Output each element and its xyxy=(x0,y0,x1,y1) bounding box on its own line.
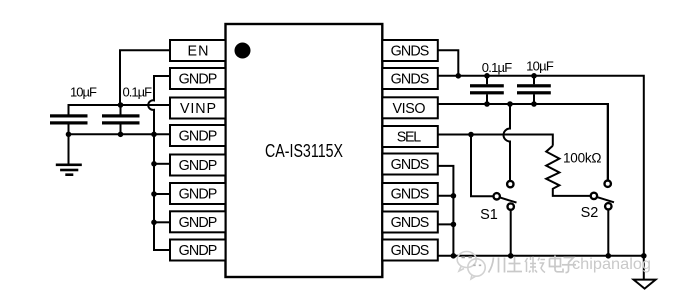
switch S2 xyxy=(591,181,614,256)
node bus dot GNDP6 xyxy=(151,191,157,197)
node bottom rail dot ground xyxy=(641,253,647,259)
wire VISO rail xyxy=(437,104,608,180)
wire ground rail left (net GNDP) xyxy=(69,133,171,135)
svg-text:GNDP: GNDP xyxy=(179,187,218,203)
ground triangle symbol right xyxy=(634,256,656,289)
node bottom rail dot S1 xyxy=(508,253,514,259)
node VISO dot C3 xyxy=(484,101,490,107)
wire bottom rail right xyxy=(437,255,644,257)
svg-text:0.1µF: 0.1µF xyxy=(482,60,513,75)
wire VINP rail xyxy=(69,105,171,115)
pin box VISO xyxy=(382,97,438,118)
ground earth symbol left xyxy=(56,134,82,176)
pin box GNDP4 xyxy=(170,125,226,146)
wire S2 upper branch from VISO xyxy=(607,104,609,180)
node bus dot GNDS6 xyxy=(451,193,457,199)
pin box GNDP6 xyxy=(170,183,226,204)
node VISO dot C4 xyxy=(531,101,537,107)
watermark char zi xyxy=(562,258,576,273)
watermark char dian xyxy=(550,256,564,272)
node junction gnd rail C1 xyxy=(66,132,72,138)
node junction GNDS1 xyxy=(456,73,462,79)
pin box GNDP2 xyxy=(170,68,226,89)
pin box VINP xyxy=(170,98,226,119)
capacitor C 10uF left xyxy=(50,105,121,134)
node top rail dot C4 xyxy=(531,73,537,79)
svg-text:VISO: VISO xyxy=(393,101,426,117)
svg-text:GNDS: GNDS xyxy=(391,157,430,173)
node junction gnd rail C2 xyxy=(118,132,124,138)
pin box GNDS5 xyxy=(382,154,438,175)
svg-text:GNDP: GNDP xyxy=(179,129,218,145)
node junction gnd rail bus xyxy=(151,132,157,138)
svg-text:S1: S1 xyxy=(480,207,498,223)
svg-text:GNDS: GNDS xyxy=(391,187,430,203)
wire EN to VINP rail (net VINP) xyxy=(120,50,170,105)
watermark char wei xyxy=(525,257,545,273)
pin box EN xyxy=(170,40,226,61)
node SEL dot S1 xyxy=(468,132,474,138)
wire GNDP7 stub xyxy=(154,221,170,223)
wire GNDP6 stub xyxy=(154,193,170,195)
switch S1 xyxy=(494,181,517,256)
node top rail dot C3 xyxy=(484,73,490,79)
pin box GNDS8 xyxy=(382,240,438,261)
wire GNDP5 stub xyxy=(154,163,170,165)
pin box GNDS2 xyxy=(382,68,438,89)
node bus dot GNDS7 xyxy=(451,222,457,228)
svg-text:GNDP: GNDP xyxy=(179,243,218,259)
wire GNDS5 to bus xyxy=(437,166,453,256)
svg-text:GNDS: GNDS xyxy=(391,72,430,88)
svg-text:0.1µF: 0.1µF xyxy=(123,85,153,100)
node bottom rail dot S2 xyxy=(606,253,612,259)
svg-text:GNDS: GNDS xyxy=(391,44,430,60)
node bus dot GNDP5 xyxy=(151,161,157,167)
capacitor C 0.1uF left xyxy=(102,114,140,134)
watermark char tu xyxy=(507,257,522,272)
node pin1 dot xyxy=(235,43,251,59)
svg-text:10µF: 10µF xyxy=(526,59,554,74)
node bus dot GNDP7 xyxy=(151,220,157,226)
svg-text:CA-IS3115X: CA-IS3115X xyxy=(265,141,343,161)
svg-text:chipanalog: chipanalog xyxy=(572,256,651,273)
svg-text:SEL: SEL xyxy=(397,129,422,145)
wire GNDS1 to top rail xyxy=(437,50,458,76)
wire SEL to S1 left throw xyxy=(471,135,493,197)
pin box GNDS1 xyxy=(382,40,438,61)
svg-text:EN: EN xyxy=(188,44,209,60)
svg-text:10µF: 10µF xyxy=(70,85,97,100)
pin box SEL xyxy=(382,126,438,147)
wire S1 upper branch with hop over SEL xyxy=(504,104,511,180)
wire SEL rail xyxy=(437,135,553,146)
svg-text:GNDS: GNDS xyxy=(391,243,430,259)
wire GNDS7 stub xyxy=(437,223,453,225)
watermark logo wechat bubbles xyxy=(457,252,485,280)
pin box GNDP8 xyxy=(170,240,226,261)
pin box GNDS6 xyxy=(382,183,438,204)
svg-text:GNDP: GNDP xyxy=(179,72,218,88)
wire GNDP bus left with hop over VINP xyxy=(148,76,170,250)
svg-text:GNDP: GNDP xyxy=(179,158,218,174)
watermark char chuan xyxy=(489,258,505,273)
svg-text:S2: S2 xyxy=(581,205,599,221)
wire GNDS6 stub xyxy=(437,195,453,197)
capacitor C 10uF right xyxy=(517,76,551,104)
wire top rail GNDS right xyxy=(437,76,644,256)
svg-text:VINP: VINP xyxy=(180,101,216,117)
op-amp U1 IC body CA-IS3115X xyxy=(226,24,383,277)
node VISO dot S1 branch xyxy=(507,101,513,107)
svg-text:GNDP: GNDP xyxy=(179,215,218,231)
svg-text:100kΩ: 100kΩ xyxy=(563,150,602,165)
pin box GNDP5 xyxy=(170,155,226,176)
capacitor C 0.1uF right xyxy=(470,76,504,104)
pin box GNDS7 xyxy=(382,212,438,233)
node bottom rail dot bus xyxy=(451,253,457,259)
resistor R 100k xyxy=(546,146,590,196)
pin box GNDP7 xyxy=(170,211,226,232)
svg-text:GNDS: GNDS xyxy=(391,215,430,231)
node junction EN/VINP/C2 xyxy=(118,102,124,108)
